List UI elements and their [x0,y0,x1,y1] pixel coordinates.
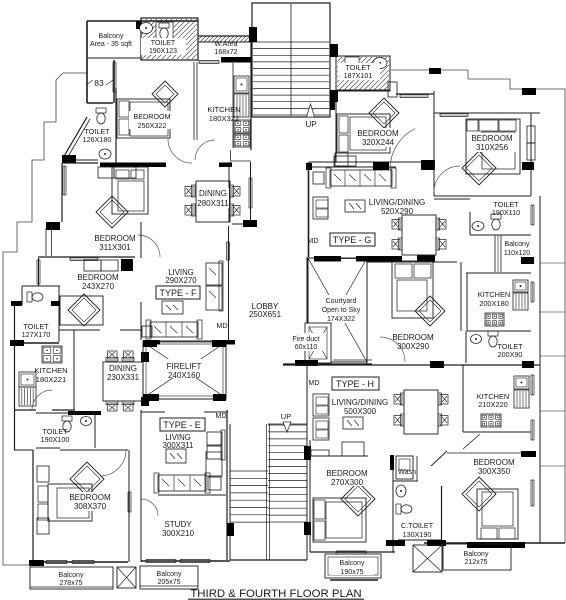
bedroom 320X244 label [353,128,403,147]
column [386,540,405,546]
column [330,44,338,57]
toilet 187X101 wc [345,57,359,65]
svg-text:210X220: 210X220 [478,400,508,409]
courtyard [308,258,367,362]
svg-text:280X311: 280X311 [197,199,229,208]
living H center table [343,417,363,429]
svg-text:KITCHEN: KITCHEN [207,105,240,114]
column [295,360,318,366]
stair up arrow [307,104,315,117]
toilet 126X180 sink [99,149,111,159]
kitchen 180X221 stove [42,346,62,363]
staircase bottom walls [229,424,231,560]
c.toilet east wall [441,486,443,541]
column [11,301,22,306]
study top wall [158,494,226,496]
column [249,27,257,42]
svg-text:BEDROOM: BEDROOM [473,458,515,467]
column [522,162,534,170]
svg-text:205x75: 205x75 [158,579,181,586]
svg-text:Balcony: Balcony [340,560,365,567]
living F sofa vertical [206,263,222,285]
toilet 187X101 [336,56,390,91]
column [212,340,226,347]
toilet 200X90 walls [465,331,467,363]
svg-text:270X300: 270X300 [331,478,364,487]
wash basin [396,485,406,497]
living E side table [208,477,221,490]
living H armchair 1 [313,394,329,416]
bedroom 300X290 walls [366,262,368,364]
svg-text:311X301: 311X301 [99,243,131,252]
toilet 190X123 sink [140,23,153,34]
svg-text:C.TOILET: C.TOILET [401,521,434,530]
bedroom 250X322 walls [115,88,117,163]
kitchen SE corner walls [230,150,232,161]
svg-text:240X160: 240X160 [168,371,201,380]
column [430,361,444,368]
column [143,340,157,347]
kitchen 210X220 walls [462,365,464,432]
toilet top wall black [68,411,101,415]
living G armchair [313,197,328,219]
balcony inner wall y58 [87,57,141,59]
toilet 200X90 sink [471,335,482,344]
svg-text:LIVING/DINING: LIVING/DINING [332,398,388,407]
toilet 190X123 label [141,38,186,55]
column [521,257,534,264]
svg-text:Open to Sky: Open to Sky [322,307,361,314]
lobby east wall upper [308,162,310,257]
living F sofa long [150,322,198,337]
svg-text:Balcony: Balcony [505,241,530,248]
svg-text:BEDROOM: BEDROOM [357,129,399,138]
dining G table [402,215,436,255]
svg-text:BEDROOM: BEDROOM [77,273,119,282]
bedroom 300X290 door arc [380,337,405,362]
svg-text:300X210: 300X210 [162,529,195,538]
column [304,522,311,535]
living H seat [342,442,364,456]
east wall inner [539,196,541,543]
courtyard label [316,295,366,323]
type G box [330,233,375,246]
column [522,361,534,368]
svg-text:278x75: 278x75 [60,580,83,587]
main wall y365 [283,364,540,366]
kitchen 200X180 counter [513,280,528,292]
dining 230X331 label [104,364,142,382]
balcony 205x75 [140,566,198,589]
svg-text:Balcony: Balcony [157,571,182,578]
c.toilet wc [396,504,401,514]
study door arc [141,499,158,516]
living E long sofa [158,475,206,491]
svg-text:126X180: 126X180 [83,135,112,144]
toilet bottom wall [10,342,59,344]
bedroom 320X244 walls [336,89,390,91]
svg-text:BEDROOM: BEDROOM [471,134,513,143]
column [421,160,435,170]
svg-text:MD: MD [307,236,318,245]
west jog wall below col [45,228,47,256]
type F box [156,286,200,299]
column [227,523,234,536]
kitchen grill [234,94,249,117]
svg-text:BEDROOM: BEDROOM [94,234,136,243]
column [51,301,60,306]
living G center table [345,200,365,212]
bedroom 311 door arc [138,235,160,257]
wall under bedroom243 [59,329,100,331]
column [213,394,226,401]
column (ne) [522,88,536,95]
toilet 190X100 wc [62,416,72,421]
toilet 190X123 [141,18,198,60]
bedroom 300X350 walls [447,452,521,454]
bedroom 300X350 bed [462,477,496,511]
bedroom 320X244 bed [369,98,399,128]
svg-text:190X110: 190X110 [492,208,520,217]
stair bottom up arrow [283,422,291,432]
dining 230X331 chairs [108,351,118,359]
staircase bottom treads right flight [268,424,307,426]
balcony 190x75 [325,554,381,578]
bedroom250 door arc [168,139,192,163]
kitchen 200X180 hob [485,313,504,326]
dining H table [404,390,438,434]
balcony 278x75 [30,567,113,589]
living F end table [142,326,152,337]
living G side table [313,172,324,184]
column [373,162,389,170]
svg-text:60x110: 60x110 [295,344,318,351]
living G sofa long [330,170,392,186]
bedroom 270X300 wardrobe [311,450,329,456]
bedroom 310X256 walls [433,91,435,196]
living E corner sofa upper [206,452,222,476]
column on north boundary [429,68,441,74]
toilet 190X100 sink [81,417,92,426]
svg-text:TYPE - E: TYPE - E [163,420,201,430]
bedroom 243X270 label [74,272,122,291]
bedroom 243 west wall window [36,260,38,284]
bedroom 311X301 wardrobe [98,167,114,178]
column [330,90,338,102]
bedroom 308X370 bed [70,462,104,496]
svg-text:BEDROOM: BEDROOM [326,469,368,478]
living G south wall [314,256,341,262]
toilet 190X110 walls [470,234,531,236]
svg-text:MD: MD [308,378,319,387]
svg-text:Balcony: Balcony [59,572,84,579]
living G top wall [307,166,396,168]
svg-text:KITCHEN: KITCHEN [478,290,510,299]
toilet 127X170 walls [22,285,60,287]
bedroom 243X270 bed [60,296,103,325]
svg-text:110x120: 110x120 [504,250,530,257]
kitchen 180X221 sink unit [19,372,36,387]
svg-text:BEDROOM: BEDROOM [392,333,434,342]
svg-text:190x75: 190x75 [341,569,364,576]
site boundary stepped line west [3,73,87,565]
column [10,340,24,346]
bedroom 308X370 walls [60,449,128,451]
kitchen 180X322 counter [232,63,234,148]
bedroom 310X256 label [467,133,517,152]
toilet 126X180 walls [63,117,87,158]
svg-text:UP: UP [281,412,291,421]
svg-text:174X322: 174X322 [327,316,355,323]
svg-text:200X180: 200X180 [479,299,509,308]
svg-text:FIRELIFT: FIRELIFT [167,362,202,371]
kitchen 210X220 hob [481,414,501,427]
type E box [160,418,205,431]
living G wardrobe [334,156,356,166]
dining chairs [185,187,193,197]
site boundary stepped line east [391,70,565,543]
living H armchair 2 [313,418,329,440]
living E top wall [141,411,165,413]
toilet 190X110 wc [491,214,501,219]
bedroom 300X350 door leaf [431,451,447,466]
svg-text:190X123: 190X123 [149,48,177,55]
svg-text:TYPE - F: TYPE - F [159,288,197,298]
dining east wall/window [250,162,252,220]
lobby west wall [228,162,230,222]
study south wall [141,560,230,562]
bedroom 300X290 bed [392,261,433,318]
column [330,102,335,110]
courtyard south wall [283,363,372,365]
kitchen top black wall [221,57,251,63]
bedroom 320 south wall [309,161,434,163]
toilet 187X101 sink [373,58,387,69]
dining 280X311 table [196,181,230,222]
svg-text:TOILET: TOILET [151,40,176,47]
svg-text:KITCHEN: KITCHEN [34,366,67,375]
svg-text:212x75: 212x75 [465,559,488,566]
svg-text:BEDROOM: BEDROOM [133,112,170,121]
wall black bar [100,163,166,168]
balcony area 35 sqft walls [87,20,198,22]
column [143,394,159,401]
firelift shaft [143,341,226,399]
bedroom 310 south wall [434,195,531,197]
bedroom 243X270 wardrobe [84,260,101,271]
staircase bottom divider [266,424,268,560]
svg-text:180X221: 180X221 [36,375,66,384]
bedroom 270X300 south wall [310,551,395,553]
divider xbox right [413,545,442,572]
svg-text:DINING: DINING [199,189,227,198]
window east bedroom308 [127,492,129,512]
kitchen 210X220 counter [514,376,529,389]
bedroom 308X370 wardrobe [37,466,49,482]
living E center table [166,449,186,463]
svg-text:500X300: 500X300 [344,407,377,416]
kitchen 200X180 walls [466,272,531,274]
bedroom 311 bottom wall [38,256,135,258]
bedroom 308X370 label [66,492,116,511]
svg-text:190X100: 190X100 [41,435,70,444]
column [243,220,257,227]
column [136,21,142,29]
column [121,259,133,271]
svg-text:250X651: 250X651 [249,310,282,319]
living F center table [162,301,183,314]
toilet 127X170 wc [27,292,32,302]
west wall lower [14,449,33,451]
svg-text:200X90: 200X90 [498,350,523,359]
svg-text:230X331: 230X331 [107,373,140,382]
svg-text:THIRD & FOURTH FLOOR PLAN: THIRD & FOURTH FLOOR PLAN [190,588,361,600]
svg-text:290X270: 290X270 [165,276,197,285]
svg-text:187X101: 187X101 [344,71,373,80]
main wall y163 [62,162,98,164]
svg-text:130X190: 130X190 [403,530,432,539]
column [467,542,525,548]
balcony 110x120 rails [494,235,496,272]
wall x141 black segs [141,352,149,362]
column [46,222,60,230]
wash west wall [392,455,394,552]
corner column [417,255,435,262]
bedroom 310X256 wardrobe [527,126,535,143]
main wall x141 [140,222,142,258]
bedroom 320X244 wardrobe [335,153,348,166]
staircase bottom treads left flight [230,470,268,472]
svg-text:MD: MD [216,321,227,330]
svg-text:243X270: 243X270 [82,282,115,291]
svg-text:250X322: 250X322 [138,121,167,130]
svg-text:308X370: 308X370 [74,502,107,511]
svg-text:Balcony: Balcony [99,33,124,40]
divider xbox left [117,567,136,588]
svg-text:LIVING/DINING: LIVING/DINING [369,198,425,207]
bedroom 310 door arc [434,166,460,192]
kitchen east wall [73,330,75,410]
svg-text:STUDY: STUDY [164,520,192,529]
svg-text:180X322: 180X322 [209,114,239,123]
bedroom 270X300 label [322,467,372,487]
type H box [332,377,379,390]
bedroom 300X290 label [388,332,438,351]
bedroom 311X301 bed [112,167,148,214]
fire duct label [288,333,324,351]
kitchen door arc [195,140,215,160]
bedroom 310X256 bed [466,119,520,174]
svg-text:W.Area: W.Area [215,41,238,48]
column [521,451,536,457]
toilet 200X90 wc [488,331,498,336]
dining 230X331 table [103,362,143,401]
toilet 187X101 label [338,63,380,80]
column [62,155,76,163]
bedroom 250X322 bed [152,81,178,107]
svg-text:DINING: DINING [109,364,137,373]
toilet 190X100 walls [36,412,95,414]
svg-text:83: 83 [94,78,104,88]
staircase top [252,3,330,117]
svg-text:310X256: 310X256 [476,143,509,152]
svg-text:TYPE - H: TYPE - H [336,379,374,389]
svg-text:320X244: 320X244 [362,138,395,147]
svg-text:Courtyard: Courtyard [326,298,357,305]
fire duct [305,323,331,363]
bedroom 308X370 door arc [100,450,126,476]
svg-text:127X170: 127X170 [22,330,51,339]
kitchen door diagonal [463,434,480,449]
svg-text:BEDROOM: BEDROOM [69,493,111,502]
study east wall [226,410,228,560]
toilet 190X110 sink [472,222,484,231]
window toilet126 [62,166,64,195]
kitchen 180X322 walls [193,62,195,140]
column [29,560,44,566]
wall black bar2 [219,163,232,168]
svg-text:Area - 35 sqft: Area - 35 sqft [90,41,132,48]
svg-text:UP: UP [305,120,316,129]
firelift label [158,359,212,380]
kitchen hob lower [234,134,250,147]
svg-text:Wash: Wash [398,467,416,476]
bedroom 250X322 label [129,111,175,130]
dining 280X311 label [197,188,229,208]
svg-text:300X350: 300X350 [478,467,511,476]
living E corner sofa vertical [207,432,222,445]
bedroom 300X350 label [469,457,519,476]
toilet 126X180 wc [96,108,106,113]
bedroom 270X300 walls [310,455,368,457]
bedroom 270X300 bed [341,482,375,516]
balcony 212x75 [443,544,511,570]
svg-text:Balcony: Balcony [464,551,489,558]
column [427,540,446,546]
kitchen sink unit [234,76,249,93]
bedroom 320 door arc [390,129,415,169]
svg-text:168x72: 168x72 [215,49,238,56]
kitchen hob upper [234,120,250,133]
bedroom 300X350 south wall [424,542,565,544]
wash appliance [396,456,413,479]
column [390,455,394,470]
svg-text:TYPE - G: TYPE - G [333,235,372,245]
svg-text:Fire duct: Fire duct [292,336,319,343]
kitchen door arc [32,390,52,410]
toilet 190X123 wc [159,23,169,39]
column [304,446,311,460]
w.area wall hatched [198,35,253,37]
south wall bedroom308 [33,561,128,563]
